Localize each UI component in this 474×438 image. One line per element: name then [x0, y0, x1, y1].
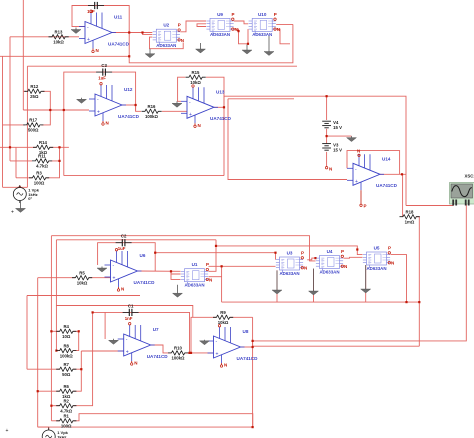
svg-text:C3: C3	[101, 63, 107, 68]
junction 0	[128, 55, 130, 57]
op-amp U7	[118, 323, 155, 366]
wire U3 gnd drop	[276, 270, 278, 302]
junction 5	[326, 95, 328, 97]
junction 2	[141, 31, 143, 33]
svg-text:N: N	[224, 363, 227, 368]
svg-text:+: +	[355, 179, 358, 185]
svg-text:UA741CD: UA741CD	[210, 116, 232, 121]
svg-text:R15: R15	[192, 70, 200, 75]
wire R6 left lead	[38, 390, 60, 392]
wire bot top2	[56, 239, 216, 241]
wire U11 minus stub	[72, 26, 85, 28]
wire U14 out	[380, 173, 406, 175]
op-amp U12	[89, 83, 126, 126]
oscilloscope XSC1	[450, 183, 474, 206]
power P of U2	[178, 23, 181, 31]
resistor R12 25Ω	[24, 84, 44, 99]
svg-text:U1: U1	[192, 262, 198, 267]
wire H3 y66.2 osc2 top	[27, 65, 297, 67]
resistor R13 10kΩ	[49, 30, 69, 45]
junction 1	[128, 31, 130, 33]
svg-text:UA741CD: UA741CD	[134, 280, 156, 285]
svg-text:10kΩ: 10kΩ	[77, 281, 88, 286]
svg-text:R1: R1	[63, 414, 69, 419]
junction 31	[9, 146, 11, 148]
wire R10 right	[185, 352, 214, 354]
wire V1 top stub	[48, 427, 50, 430]
svg-text:U5: U5	[374, 246, 380, 251]
svg-text:P: P	[274, 12, 277, 17]
wire y245.9	[216, 246, 363, 255]
wire U7 plus in	[81, 350, 123, 352]
wire ladder left x56.4	[55, 240, 57, 306]
svg-text:10Ω: 10Ω	[62, 334, 71, 339]
wire H2 y62.8	[129, 24, 293, 62]
op-amp U6	[105, 249, 142, 292]
svg-text:1uF: 1uF	[98, 76, 106, 81]
wire y295.5	[27, 295, 140, 297]
svg-text:XSC1: XSC1	[465, 174, 474, 179]
ground U2	[145, 49, 155, 58]
ground U10	[264, 36, 274, 56]
svg-text:N: N	[344, 264, 347, 269]
svg-text:+: +	[113, 276, 116, 282]
svg-text:R11: R11	[38, 154, 46, 159]
power N battery	[325, 167, 332, 172]
wire U10 out right	[276, 23, 293, 25]
wire U6 out	[138, 270, 181, 272]
wire R11 right	[49, 147, 60, 161]
wire bus x16	[15, 148, 17, 178]
resistor R18 1mΩ	[400, 210, 420, 225]
wire U2 out up	[180, 21, 206, 32]
power N of U2	[178, 38, 184, 43]
svg-text:N: N	[121, 287, 124, 292]
wire U13 out	[214, 106, 224, 108]
power P of U3	[301, 251, 304, 259]
power N of U10	[274, 27, 280, 32]
wire U7 out	[151, 345, 171, 353]
multiplier U2 AD633AN	[153, 29, 180, 45]
wire scope B stub	[465, 200, 467, 208]
wire R3 right	[46, 161, 60, 178]
junction 33	[50, 330, 52, 332]
wire U2 z loop	[150, 37, 184, 49]
wire x252.6	[252, 317, 254, 427]
svg-text:1mΩ: 1mΩ	[405, 220, 415, 225]
wire U8 out	[241, 346, 253, 348]
junction 10	[223, 106, 225, 108]
svg-text:50Ω: 50Ω	[62, 372, 71, 377]
junction 15	[215, 245, 217, 247]
multiplier U10 AD633AN	[249, 18, 276, 34]
wire R3 left	[16, 177, 33, 179]
svg-text:100kΩ: 100kΩ	[171, 356, 185, 361]
wire U1 out up	[209, 240, 217, 271]
multiplier U4 AD633AN	[316, 256, 343, 272]
wire R1 left lead	[51, 420, 59, 422]
resistor R10 100kΩ	[168, 346, 188, 361]
svg-text:AD633AN: AD633AN	[184, 283, 204, 288]
svg-text:U8: U8	[243, 329, 249, 334]
wire x27 down	[26, 296, 28, 370]
op-amp U13	[181, 85, 218, 128]
svg-text:C1: C1	[128, 303, 134, 308]
junction 23	[252, 346, 254, 348]
power P of U9	[232, 12, 235, 21]
resistor R3 100Ω	[29, 171, 49, 186]
wire U13 out down	[223, 107, 225, 175]
label V1	[57, 430, 68, 438]
junction 22	[252, 340, 254, 342]
wire U2 in elbow	[143, 33, 153, 35]
svg-text:N: N	[357, 148, 360, 153]
wire H1 y56.3	[0, 55, 129, 57]
capacitor C2	[116, 239, 132, 246]
svg-text:U7: U7	[153, 327, 159, 332]
svg-text:100kΩ: 100kΩ	[60, 353, 74, 358]
ground U4	[309, 269, 319, 296]
wire y340.9	[253, 208, 467, 341]
junction 6	[326, 135, 328, 137]
wire U3 out	[307, 258, 315, 260]
wire R7 left lead	[27, 368, 60, 370]
svg-text:N: N	[134, 361, 137, 366]
svg-text:N: N	[106, 121, 109, 126]
svg-text:+: +	[11, 210, 14, 216]
op-amp U11	[79, 10, 116, 53]
junction 34	[50, 405, 52, 407]
svg-text:+: +	[87, 37, 90, 43]
capacitor C1	[123, 309, 139, 316]
wire battery top	[326, 96, 328, 120]
svg-text:100kΩ: 100kΩ	[145, 114, 159, 119]
junction 4	[247, 43, 249, 45]
junction 13	[58, 160, 60, 162]
svg-text:U11: U11	[114, 15, 123, 20]
resistor R1 100Ω	[56, 414, 76, 429]
svg-text:15 V: 15 V	[333, 148, 342, 153]
wire V1 line	[38, 426, 49, 428]
wire U4 out	[344, 256, 363, 259]
wire R5 right	[89, 277, 111, 279]
svg-text:P: P	[388, 246, 391, 251]
resistor R11 4.7kΩ	[32, 154, 52, 169]
wire R12 left	[23, 90, 26, 92]
svg-text:R10: R10	[174, 346, 182, 351]
svg-text:N: N	[391, 261, 394, 266]
wire U1 z	[209, 276, 222, 278]
svg-text:1nF: 1nF	[125, 316, 133, 321]
wire U4 gnd drop	[313, 269, 315, 302]
wire U1 in2	[171, 271, 181, 274]
wire R15 right	[206, 77, 224, 107]
wire R17 left	[3, 124, 26, 126]
wire out down R18	[402, 174, 404, 216]
wire R2 left lead	[51, 405, 59, 407]
wire U11 out	[112, 32, 152, 34]
battery V4 15 V	[322, 121, 331, 128]
wire U12 out jog	[136, 105, 141, 111]
svg-text:AD633AN: AD633AN	[279, 271, 299, 276]
svg-text:R9: R9	[220, 310, 226, 315]
junction 30	[19, 186, 21, 188]
wire left bus x2.5	[2, 56, 4, 187]
junction 14	[170, 270, 172, 272]
multiplier U9 AD633AN	[206, 18, 233, 34]
wire y179.5 to U14	[228, 99, 347, 180]
svg-text:500Ω: 500Ω	[28, 128, 39, 133]
multiplier U1 AD633AN	[181, 269, 208, 285]
wire U9 out	[234, 21, 248, 24]
AC source V2	[13, 185, 26, 203]
svg-text:R16: R16	[148, 104, 156, 109]
wire U11 feedback left	[72, 6, 129, 57]
resistor R15 10kΩ	[186, 70, 206, 85]
svg-text:+: +	[216, 352, 219, 358]
svg-text:N: N	[304, 266, 307, 271]
wire to R11	[10, 160, 32, 162]
AC source V1	[42, 428, 55, 438]
wire R14 line	[0, 146, 37, 148]
svg-text:R5: R5	[79, 271, 85, 276]
svg-text:0°: 0°	[28, 196, 32, 201]
resistor R16 100kΩ	[142, 104, 162, 119]
wire U1 z box left	[221, 266, 223, 302]
svg-text:N: N	[181, 38, 184, 43]
wire U9 z	[234, 29, 248, 44]
svg-text:AD633AN: AD633AN	[210, 32, 230, 37]
junction 26	[80, 368, 82, 370]
junction 17	[274, 252, 276, 254]
wire U5 gnd drop	[365, 265, 367, 302]
svg-text:100Ω: 100Ω	[34, 181, 45, 186]
wire R4 left lead	[51, 330, 59, 332]
junction 35	[55, 350, 57, 352]
wire U2 second in	[197, 24, 206, 27]
svg-text:AD633AN: AD633AN	[366, 266, 386, 271]
wire x92.6 R2 right	[73, 312, 93, 405]
multiplier U3 AD633AN	[276, 257, 303, 273]
junction 18	[314, 257, 316, 259]
wire bus x23.3	[22, 0, 24, 110]
ground U7 input	[109, 339, 119, 345]
wire battery gnd	[327, 135, 352, 137]
wire bot top1	[51, 236, 315, 261]
junction 11	[135, 104, 137, 106]
ground U9b	[242, 45, 252, 55]
wire C1 left	[104, 312, 106, 339]
svg-text:U10: U10	[258, 12, 267, 17]
svg-text:+: +	[97, 110, 100, 116]
svg-text:N: N	[198, 123, 201, 128]
wire y175.6	[64, 175, 224, 177]
svg-text:4.7kΩ: 4.7kΩ	[36, 164, 48, 169]
wire y98.8	[228, 98, 294, 100]
power N of U4	[341, 264, 347, 269]
svg-text:UA741CD: UA741CD	[376, 183, 398, 188]
svg-text:15 V: 15 V	[333, 125, 342, 130]
wire y427.1	[38, 426, 253, 428]
svg-text:R4: R4	[63, 324, 69, 329]
resistor R7 50Ω	[56, 362, 76, 377]
junction 25	[190, 352, 192, 354]
svg-text:1uF: 1uF	[118, 246, 126, 251]
svg-text:R13: R13	[55, 30, 63, 35]
svg-text:N: N	[329, 167, 332, 172]
wire R16 to U13	[162, 111, 187, 113]
label V2	[28, 188, 39, 202]
wire ladder left x37.7	[37, 278, 39, 427]
svg-text:U2: U2	[163, 23, 169, 28]
svg-text:UA741CD: UA741CD	[147, 354, 169, 359]
wire R12 right	[41, 91, 50, 125]
power P of U4	[341, 249, 344, 258]
junction 12	[58, 146, 60, 148]
power N of U3	[301, 266, 307, 271]
wire bus x10	[9, 37, 11, 161]
wire R8 left bus	[56, 306, 59, 351]
svg-text:U6: U6	[140, 253, 146, 258]
svg-text:U13: U13	[216, 89, 225, 94]
svg-text:P: P	[301, 251, 304, 256]
resistor R8 100kΩ	[56, 343, 76, 358]
svg-text:25Ω: 25Ω	[30, 94, 39, 99]
wire V2 stub	[19, 186, 21, 189]
wire y305.5	[56, 306, 192, 318]
wire ladder left x51.4	[50, 236, 52, 421]
wire x63.8 down	[63, 110, 65, 176]
wire V2 line	[3, 186, 28, 188]
svg-text:1uF: 1uF	[87, 9, 95, 14]
ground U8 input	[200, 340, 210, 345]
svg-text:10kΩ: 10kΩ	[218, 320, 229, 325]
svg-text:R8: R8	[63, 343, 69, 348]
wire R9 right	[230, 316, 253, 318]
power N of U1	[206, 277, 212, 282]
wire U8 out stub	[252, 341, 254, 347]
power P of U1	[206, 262, 209, 270]
svg-text:+: +	[189, 112, 192, 118]
wire U5 out	[391, 255, 407, 303]
svg-text:R7: R7	[63, 362, 69, 367]
ground U5	[361, 265, 371, 293]
svg-text:R2: R2	[63, 399, 69, 404]
svg-text:P: P	[341, 249, 344, 254]
capacitor C4	[88, 2, 104, 9]
multiplier U5 AD633AN	[363, 252, 390, 268]
wire R1 right	[73, 414, 253, 427]
power N of U9	[232, 27, 238, 32]
power P of U5	[388, 246, 391, 255]
junction 20	[418, 301, 420, 303]
svg-text:10kΩ: 10kΩ	[53, 40, 64, 45]
svg-text:+: +	[126, 350, 129, 356]
wire U1 y loop	[171, 271, 181, 279]
wire U12 out	[122, 104, 136, 106]
junction 7	[401, 173, 403, 175]
power P of U10	[274, 12, 277, 21]
svg-text:U9: U9	[217, 12, 223, 17]
ground U1	[173, 285, 183, 298]
wire scope A	[406, 200, 453, 206]
junction 16	[154, 252, 156, 254]
junction 19	[356, 248, 358, 250]
svg-text:P: P	[206, 262, 209, 267]
ground V2	[16, 200, 26, 212]
junction 36	[221, 265, 223, 267]
svg-text:N: N	[96, 48, 99, 53]
wire U12 plus in	[23, 109, 89, 111]
junction 32	[37, 390, 39, 392]
resistor R9 10kΩ	[213, 310, 233, 325]
junction 24	[188, 352, 190, 354]
resistor R5 10kΩ	[72, 271, 92, 286]
svg-text:N: N	[277, 27, 280, 32]
wire R18 right	[416, 217, 419, 347]
wire U10 z	[276, 29, 290, 44]
wire osc2 left	[26, 66, 28, 187]
wire U13 out up	[224, 96, 406, 205]
svg-text:N: N	[209, 277, 212, 282]
ground U3	[272, 271, 282, 295]
wire C2 loop	[98, 243, 156, 271]
svg-text:R12: R12	[30, 84, 38, 89]
ground batteries	[347, 136, 357, 142]
svg-text:P: P	[364, 203, 367, 208]
op-amp U8	[208, 325, 245, 368]
wire C3 loop	[64, 72, 136, 111]
ground U6 input	[97, 267, 107, 273]
svg-text:100Ω: 100Ω	[61, 424, 72, 429]
ground U13 input	[172, 101, 182, 107]
svg-text:R14: R14	[39, 140, 47, 145]
wire R14 right	[50, 146, 69, 148]
resistor R4 10Ω	[56, 324, 76, 339]
wire battery mid	[326, 129, 328, 144]
junction 28	[92, 311, 94, 313]
wire y252.7	[155, 253, 275, 260]
svg-text:R17: R17	[29, 118, 37, 123]
wire R15 loop	[178, 77, 186, 101]
resistor R14 1kΩ	[33, 140, 53, 155]
wire U14 feedback	[347, 151, 400, 175]
op-amp U14	[347, 148, 384, 208]
wire battery bot	[326, 152, 328, 167]
power N of U5	[388, 261, 394, 266]
svg-text:10kΩ: 10kΩ	[190, 80, 201, 85]
resistor R17 500Ω	[23, 118, 43, 133]
wire U1 z box top	[209, 265, 276, 267]
junction 21	[405, 301, 407, 303]
wire y302.1	[222, 301, 420, 303]
capacitor C3	[96, 69, 112, 76]
svg-text:UA741CD: UA741CD	[118, 114, 140, 119]
junction 3	[237, 30, 239, 32]
svg-text:UA741CD: UA741CD	[108, 41, 130, 46]
wire C1 loop	[93, 312, 190, 353]
wire R13 input	[10, 36, 79, 38]
wire R6 right	[73, 369, 81, 391]
svg-text:N: N	[235, 27, 238, 32]
svg-text:AD633AN: AD633AN	[319, 269, 339, 274]
svg-text:P: P	[178, 23, 181, 28]
svg-text:U4: U4	[327, 249, 333, 254]
junction 27	[78, 330, 80, 332]
svg-text:1kHz: 1kHz	[57, 434, 66, 438]
resistor R6 1kΩ	[56, 384, 76, 399]
svg-text:P: P	[232, 12, 235, 17]
